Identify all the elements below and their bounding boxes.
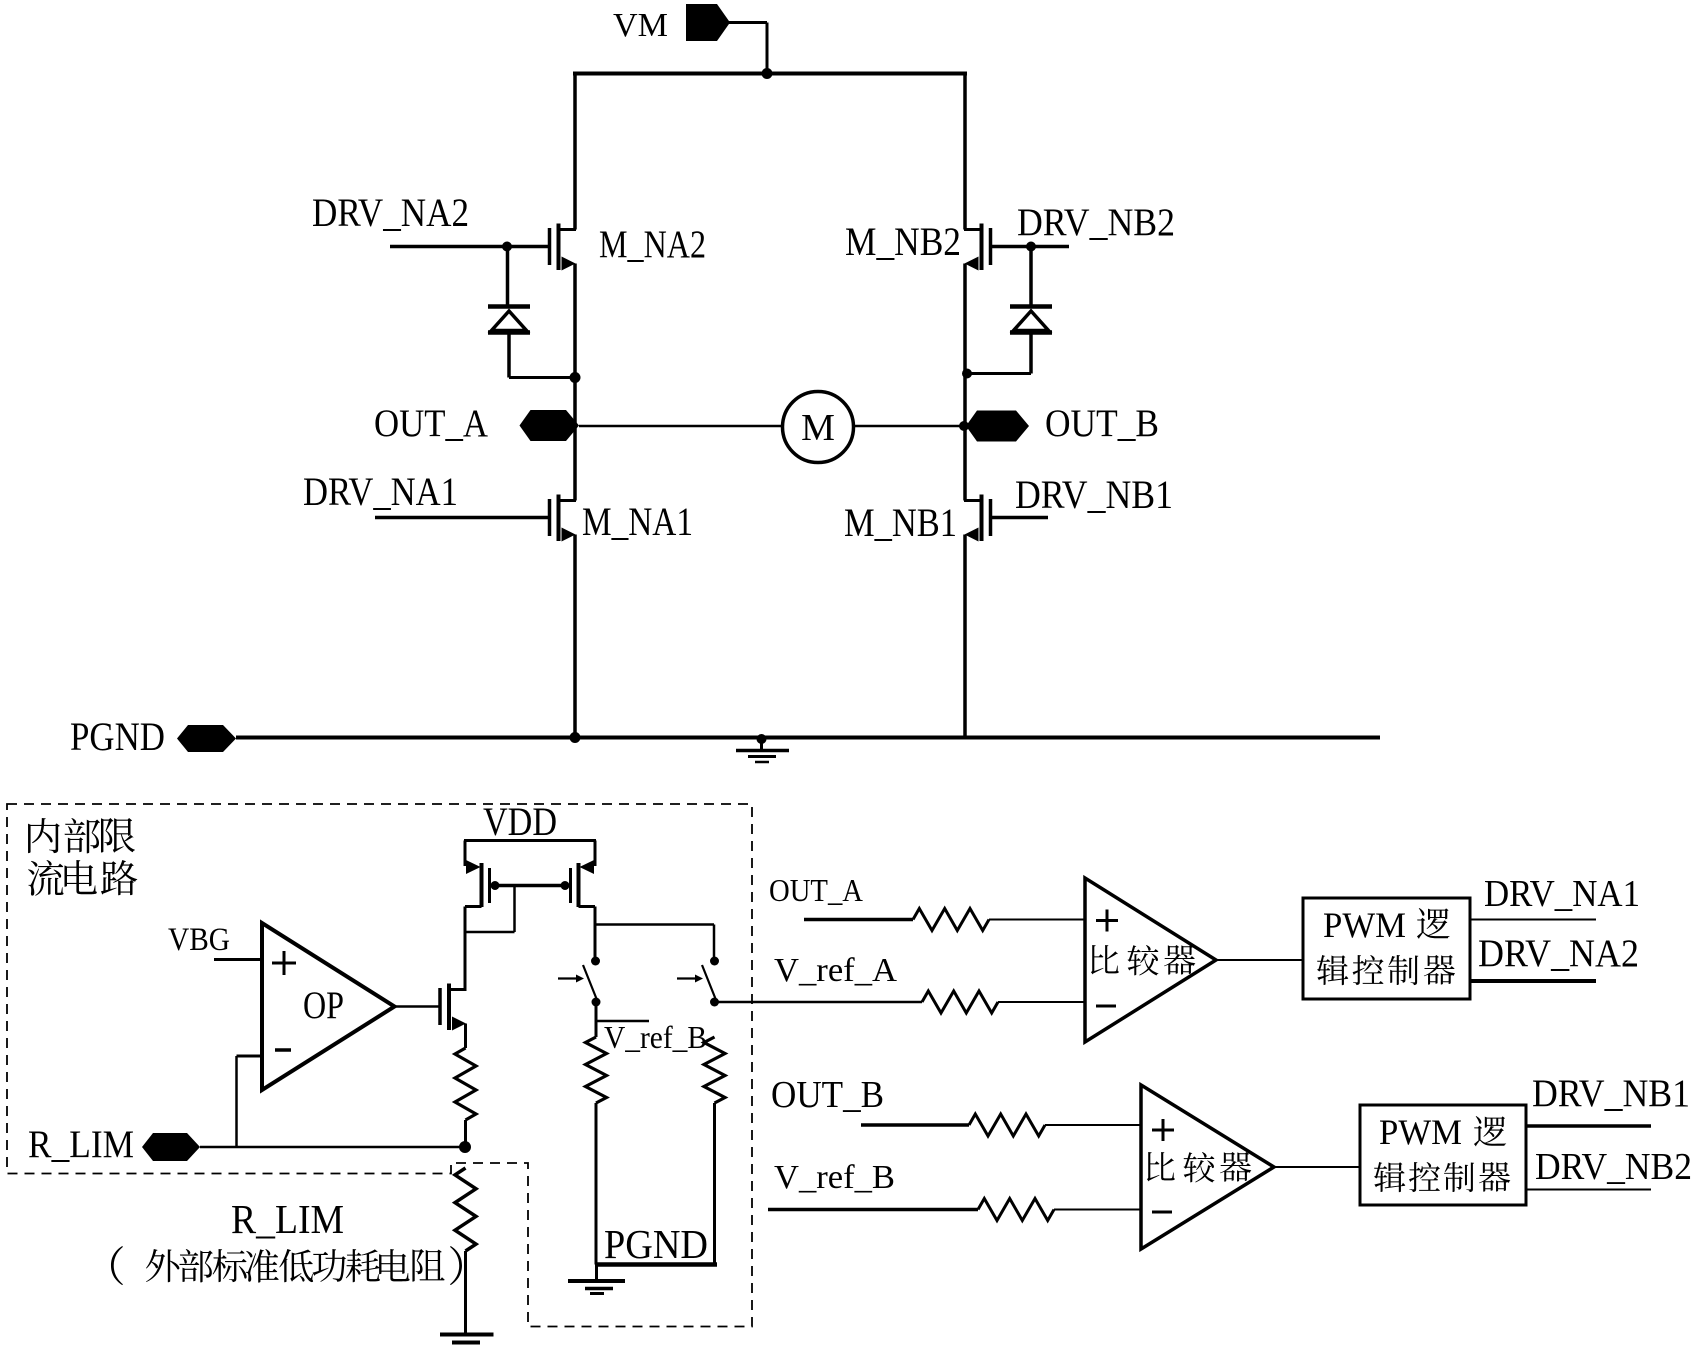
wire VM to top rail: [729, 23, 767, 74]
node M_NB2 source junction: [962, 369, 972, 379]
svg-text:V_ref_A: V_ref_A: [774, 952, 897, 989]
ground symbol (R_LIM external): [440, 1335, 494, 1343]
wire V_ref_A from S2 to comparator A: [715, 1001, 923, 1004]
wire gate DRV_NB1: [991, 516, 1049, 520]
wire DRV_NB1 output: [1526, 1124, 1651, 1128]
pin R_LIM: [142, 1133, 200, 1161]
svg-text:PGND: PGND: [70, 714, 165, 759]
svg-text:DRV_NB2: DRV_NB2: [1017, 201, 1175, 244]
resistor R5: [922, 991, 998, 1013]
svg-text:OP: OP: [303, 984, 344, 1027]
svg-text:VDD: VDD: [483, 799, 557, 844]
svg-text:OUT_A: OUT_A: [374, 402, 488, 445]
label （外部标准低功耗电阻）: [111, 1246, 462, 1285]
wire DRV_NB2 output: [1526, 1189, 1651, 1191]
wire V_ref_B tap stub: [596, 1020, 649, 1023]
svg-text:DRV_NA1: DRV_NA1: [303, 469, 458, 514]
wire right rail middle (OUT_B node): [963, 264, 967, 501]
wire OUT_A input: [804, 918, 913, 922]
node VM junction on top rail: [762, 68, 773, 79]
wire OP output to M_N3 gate: [395, 1005, 441, 1008]
svg-text:R_LIM: R_LIM: [231, 1196, 344, 1242]
node OUT_B junction: [959, 421, 969, 431]
svg-text:M_NA1: M_NA1: [582, 499, 693, 544]
svg-text:PWM: PWM: [1379, 1112, 1462, 1152]
svg-text:DRV_NA1: DRV_NA1: [1484, 873, 1640, 915]
transistor M_NA2: [550, 224, 577, 271]
wire V_ref_B input: [768, 1208, 978, 1212]
motor M1: [783, 392, 854, 463]
op-amp OP: [262, 923, 395, 1090]
wire left rail middle (OUT_A node): [573, 264, 577, 501]
wire M_P2 drain node: [579, 907, 715, 962]
svg-text:OUT_B: OUT_B: [771, 1074, 884, 1116]
wire OUT_B input: [861, 1123, 969, 1127]
comparator U_B: [1141, 1085, 1274, 1249]
resistor R1 (internal sense): [455, 1048, 476, 1120]
svg-text:OUT_B: OUT_B: [1045, 402, 1159, 445]
wire R1 to R_LIM node: [464, 1120, 467, 1147]
wire left rail upper (VM to M_NA2 drain): [573, 74, 577, 230]
svg-text:M_NA2: M_NA2: [599, 223, 706, 266]
wire top rail: [573, 72, 967, 76]
switch S2: [677, 957, 719, 1007]
wire R5 to comparator A: [998, 1001, 1085, 1003]
resistor R7: [978, 1199, 1054, 1221]
wire M_N3 source to R1: [464, 1024, 467, 1049]
transistor M_NB1: [964, 495, 991, 542]
node R_LIM junction: [459, 1141, 471, 1153]
wire OUT_A to motor: [579, 425, 783, 428]
transistor M_N3: [440, 984, 467, 1031]
wire gate tie of mirror: [490, 884, 571, 888]
wire motor to OUT_B: [853, 425, 963, 428]
transistor M_P2 (mirror output PMOS): [571, 841, 596, 908]
svg-text:VBG: VBG: [168, 922, 230, 958]
svg-text:PWM: PWM: [1323, 905, 1406, 945]
svg-text:DRV_NB1: DRV_NB1: [1015, 472, 1173, 517]
wire gate DRV_NA1: [375, 516, 550, 520]
transistor M_NB2: [964, 224, 991, 271]
node mirror gate left: [491, 881, 500, 890]
wire comparator B to PWM B: [1274, 1166, 1360, 1168]
PWM logic block B: [1360, 1105, 1526, 1205]
node M_NA2 source junction: [570, 372, 581, 383]
wire PGND bar: [595, 1262, 717, 1267]
svg-text:DRV_NB2: DRV_NB2: [1535, 1146, 1692, 1188]
pin OUT_B: [966, 411, 1029, 442]
wire right rail lower (M_NB1 source to PGND): [963, 535, 967, 738]
node mirror gate right: [561, 881, 570, 890]
node PGND left rail junction: [570, 732, 581, 743]
resistor R6: [969, 1114, 1045, 1136]
wire DRV_NA2 output: [1470, 979, 1596, 983]
svg-text:M_NB1: M_NB1: [844, 500, 957, 545]
wire R2 to PGND bar: [595, 1103, 598, 1265]
resistor R_LIM (external): [455, 1168, 476, 1251]
transistor M_NA1: [550, 495, 577, 542]
wire gate DRV_NA2: [390, 245, 550, 249]
svg-text:PGND: PGND: [604, 1221, 708, 1267]
wire VBG to OP+: [214, 958, 262, 961]
wire diode-connection (gate to drain of M_P1): [465, 886, 515, 933]
wire S1 to divider R2: [595, 1002, 598, 1037]
wire VDD rail: [464, 839, 596, 842]
comparator U_A: [1085, 878, 1216, 1042]
wire gate junction down to zener DB: [1029, 247, 1033, 306]
wire gate DRV_NB2: [991, 245, 1070, 249]
internal current-limit block boundary (dashed): [7, 804, 752, 1327]
svg-text:R_LIM: R_LIM: [28, 1123, 134, 1166]
node gate B2 / diode junction: [1026, 242, 1036, 252]
wire comparator A to PWM A: [1216, 959, 1303, 961]
node gate A2 / diode junction: [502, 242, 512, 252]
PWM logic block A: [1303, 898, 1470, 999]
wire zener DA anode to source node: [509, 334, 575, 378]
pin PGND: [177, 725, 236, 752]
svg-text:DRV_NA2: DRV_NA2: [312, 190, 469, 235]
wire OP- input: [237, 1055, 263, 1058]
wire OP- feedback down to R_LIM node: [235, 1056, 238, 1147]
wire right rail upper (VM to M_NB2 drain): [963, 74, 967, 230]
wire R_LIM to ground: [464, 1251, 467, 1334]
wire R3 to PGND bar: [713, 1103, 716, 1265]
wire left rail lower (M_NA1 source to PGND): [573, 535, 577, 738]
label 内部限流电路: [28, 818, 137, 896]
ground symbol on PGND rail: [736, 734, 789, 762]
resistor R4: [913, 909, 989, 931]
svg-text:V_ref_B: V_ref_B: [604, 1019, 707, 1055]
wire M_P1 drain down to M_N3: [465, 907, 482, 990]
svg-text:V_ref_B: V_ref_B: [774, 1159, 895, 1196]
wire R6 to comparator B: [1045, 1124, 1141, 1126]
svg-text:M_NB2: M_NB2: [845, 219, 961, 264]
ground symbol (divider PGND): [568, 1265, 625, 1294]
svg-text:DRV_NA2: DRV_NA2: [1478, 932, 1639, 975]
svg-text:VM: VM: [613, 7, 668, 44]
wire R7 to comparator B: [1054, 1209, 1141, 1211]
diode DB (gate zener): [1010, 307, 1052, 333]
wire gate junction down to zener DA: [506, 247, 510, 306]
resistor R2: [586, 1037, 607, 1103]
switch S1: [558, 957, 601, 1007]
pin OUT_A: [520, 410, 580, 441]
resistor R3: [704, 1037, 725, 1103]
svg-text:OUT_A: OUT_A: [769, 872, 863, 908]
wire zener DB anode to source node: [965, 334, 1031, 374]
transistor M_P1 (mirror diode-connected PMOS): [465, 841, 490, 908]
diode DA (gate zener): [488, 307, 530, 333]
svg-text:M: M: [801, 407, 835, 449]
wire DRV_NA1 output: [1470, 919, 1596, 921]
power pin VM: [613, 4, 730, 44]
wire R_LIM pin to node: [200, 1146, 465, 1149]
wire PGND rail: [236, 736, 1380, 740]
wire R4 to comparator A: [989, 919, 1085, 921]
svg-text:DRV_NB1: DRV_NB1: [1532, 1072, 1690, 1115]
